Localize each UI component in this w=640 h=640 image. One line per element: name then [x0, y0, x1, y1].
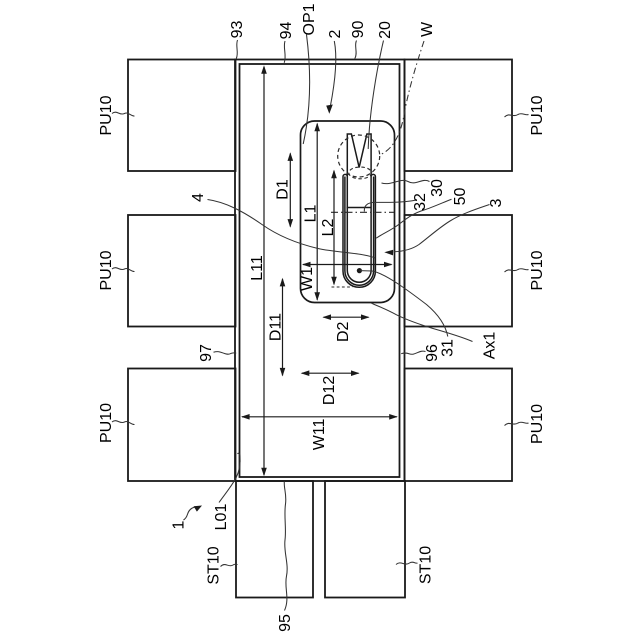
- dimension W1: [302, 262, 393, 268]
- svg-text:PU10: PU10: [98, 250, 115, 290]
- dashed extension line at slot bottom: [332, 286, 353, 288]
- leader 32: [364, 200, 417, 212]
- svg-text:90: 90: [350, 21, 367, 39]
- outer frame 90: [235, 60, 405, 482]
- svg-text:OP1: OP1: [301, 3, 318, 35]
- svg-text:ST10: ST10: [205, 546, 222, 584]
- blade 20 outline with V notch: [347, 134, 371, 282]
- box PU10 top-right: [405, 60, 513, 172]
- squiggle PU10 bottom-left: [112, 421, 135, 425]
- leader OP1: [303, 35, 309, 145]
- squiggle PU10 bottom-right: [505, 422, 529, 425]
- svg-text:31: 31: [440, 339, 457, 357]
- dimension D1: [288, 152, 294, 227]
- leader 4: [208, 200, 376, 259]
- leader 94: [284, 41, 285, 63]
- svg-text:PU10: PU10: [98, 95, 115, 135]
- dashed ellipse contact region: [349, 167, 372, 179]
- leader 96: [401, 351, 425, 354]
- inner frame 94: [240, 64, 400, 477]
- leader 50: [376, 199, 451, 238]
- leader W dash-dot: [381, 41, 425, 155]
- svg-text:W11: W11: [311, 418, 328, 450]
- squiggle PU10 top-left: [112, 112, 135, 116]
- squiggle ST10 left: [221, 564, 238, 566]
- wafer W dashed circle: [338, 135, 380, 177]
- leader L01: [219, 453, 240, 502]
- box PU10 mid-left: [128, 215, 236, 327]
- svg-text:97: 97: [198, 344, 215, 362]
- dimension D2: [322, 314, 369, 320]
- svg-text:4: 4: [190, 193, 207, 202]
- svg-text:32: 32: [412, 193, 429, 211]
- squiggle PU10 mid-left: [112, 268, 135, 272]
- svg-text:Ax1: Ax1: [482, 332, 499, 360]
- leader 20: [368, 41, 383, 150]
- box PU10 top-left: [128, 60, 236, 172]
- slot middle wall U2: [345, 177, 374, 286]
- slot outer wall U1: [343, 177, 375, 288]
- leader Ax1: [372, 303, 473, 341]
- svg-text:W: W: [419, 21, 436, 37]
- svg-text:D2: D2: [335, 321, 352, 342]
- dimension L2: [331, 170, 337, 286]
- box PU10 bottom-left: [128, 369, 236, 482]
- svg-text:96: 96: [424, 344, 441, 362]
- svg-text:95: 95: [277, 614, 294, 632]
- leader 93: [236, 40, 237, 59]
- leader 1 squiggle: [184, 507, 197, 520]
- leader 90: [355, 41, 357, 59]
- arrowhead leader 3: [384, 250, 393, 256]
- dimension D11: [280, 278, 286, 377]
- svg-text:PU10: PU10: [98, 403, 115, 443]
- svg-text:1: 1: [171, 520, 188, 529]
- svg-text:PU10: PU10: [529, 404, 546, 444]
- leader 95: [284, 482, 287, 611]
- svg-text:93: 93: [229, 21, 246, 39]
- axis dash-dot line: [331, 211, 394, 213]
- svg-text:L1: L1: [303, 205, 320, 223]
- svg-text:30: 30: [429, 179, 446, 197]
- svg-text:L2: L2: [320, 219, 337, 237]
- opening OP1 rounded rect: [301, 121, 395, 303]
- dimension D12: [301, 370, 360, 376]
- svg-text:3: 3: [488, 198, 505, 207]
- svg-text:L01: L01: [213, 504, 230, 531]
- axis point Ax1 dot: [357, 268, 362, 273]
- svg-text:PU10: PU10: [529, 95, 546, 135]
- svg-text:PU10: PU10: [529, 250, 546, 290]
- leader 3: [394, 205, 490, 252]
- box ST10 left: [236, 481, 313, 598]
- svg-text:94: 94: [278, 22, 295, 40]
- squiggle PU10 top-right: [505, 114, 529, 117]
- svg-text:L11: L11: [249, 255, 266, 281]
- slot outer wall left cap: [343, 174, 347, 176]
- arrowhead leader 2: [326, 105, 333, 114]
- dimension L11: [261, 65, 267, 476]
- svg-text:D11: D11: [268, 313, 285, 341]
- svg-text:D1: D1: [275, 179, 292, 200]
- box PU10 bottom-right: [405, 369, 513, 482]
- box PU10 mid-right: [405, 215, 513, 327]
- slot outer wall right cap: [371, 174, 375, 176]
- arrowhead leader 1: [194, 506, 202, 512]
- svg-text:50: 50: [452, 188, 469, 206]
- svg-text:W1: W1: [299, 267, 316, 291]
- leader 97: [214, 352, 237, 355]
- svg-text:2: 2: [327, 29, 344, 38]
- leader 31 from dot: [359, 271, 447, 337]
- partition 32: [347, 207, 372, 209]
- dimension W11: [241, 414, 398, 420]
- leader 2: [330, 41, 336, 107]
- svg-text:ST10: ST10: [418, 546, 435, 584]
- leader 30: [382, 180, 430, 183]
- svg-text:20: 20: [377, 21, 394, 39]
- box ST10 right: [325, 481, 405, 598]
- squiggle PU10 mid-right: [505, 269, 529, 272]
- dimension L1: [314, 123, 320, 301]
- squiggle ST10 right: [396, 562, 418, 564]
- svg-text:D12: D12: [321, 376, 338, 405]
